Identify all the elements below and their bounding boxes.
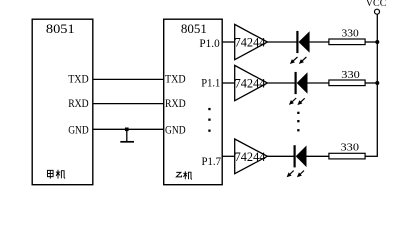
label 甲机 (machine A) char 甲 bbox=[48, 170, 54, 178]
wire RXD (U1 to U2) bbox=[93, 103, 164, 105]
wire buffer U5 to LED D3 bbox=[267, 155, 294, 157]
svg-text:P1.0: P1.0 bbox=[199, 38, 220, 50]
svg-text:RXD: RXD bbox=[165, 98, 186, 110]
VCC terminal circle bbox=[375, 9, 380, 14]
wire P1.7 to buffer U5 bbox=[222, 155, 235, 157]
VCC rail (vertical) bbox=[376, 14, 378, 157]
ground symbol bbox=[120, 129, 134, 142]
junction dot rail row1 bbox=[375, 40, 379, 44]
LED D3 emission arrows bbox=[287, 171, 304, 178]
LED D2 emission arrows bbox=[289, 98, 305, 105]
LED D2 cathode bar bbox=[295, 72, 297, 94]
buffer U3 74244 (row 1) bbox=[235, 24, 268, 59]
svg-text:GND: GND bbox=[68, 124, 89, 136]
ellipsis dots P1.2..P1.6 inside U2 bbox=[208, 108, 210, 132]
svg-text:74244: 74244 bbox=[235, 150, 266, 164]
label 乙机 (machine B) char 乙 bbox=[176, 172, 181, 177]
LED D1 emission arrows bbox=[290, 57, 307, 64]
wire GND (U1 to U2) bbox=[93, 128, 164, 130]
wire resistor R2 to VCC rail bbox=[365, 82, 377, 84]
wire buffer U3 to LED D1 bbox=[267, 41, 297, 43]
wire TXD (U1 to U2) bbox=[93, 78, 164, 80]
buffer U5 74244 (row 3) bbox=[235, 139, 268, 174]
svg-text:8051: 8051 bbox=[181, 21, 207, 36]
LED D2 triangle bbox=[297, 72, 308, 94]
IC U2 8051 box (machine B 乙机) bbox=[164, 19, 223, 185]
wire buffer U4 to LED D2 bbox=[267, 82, 295, 84]
svg-text:8051: 8051 bbox=[46, 21, 75, 36]
junction on GND wire bbox=[125, 128, 129, 132]
wire resistor R3 to VCC rail bbox=[365, 155, 377, 157]
svg-text:330: 330 bbox=[341, 142, 360, 154]
resistor R3 body bbox=[329, 153, 365, 159]
label 乙机 (machine B) char 机 bbox=[183, 171, 192, 179]
IC U1 8051 box (machine A 甲机) bbox=[32, 19, 93, 185]
svg-text:TXD: TXD bbox=[68, 73, 89, 85]
svg-text:TXD: TXD bbox=[165, 74, 186, 86]
svg-text:P1.7: P1.7 bbox=[202, 156, 222, 168]
LED D1 triangle bbox=[299, 31, 310, 53]
wire P1.1 to buffer U4 bbox=[222, 82, 235, 84]
svg-text:74244: 74244 bbox=[235, 36, 266, 50]
buffer U4 74244 (row 2) bbox=[235, 65, 268, 100]
svg-text:P1.1: P1.1 bbox=[201, 77, 220, 89]
wire LED D3 to resistor R3 bbox=[307, 155, 329, 157]
label 甲机 (machine A) char 机 bbox=[56, 170, 65, 179]
wire LED D1 to resistor R1 bbox=[310, 41, 329, 43]
svg-text:VCC: VCC bbox=[366, 0, 387, 9]
wire P1.0 to buffer U3 bbox=[222, 41, 235, 43]
LED D3 triangle bbox=[296, 146, 307, 168]
ellipsis dots LED column bbox=[297, 112, 299, 132]
svg-text:RXD: RXD bbox=[68, 98, 89, 110]
svg-text:GND: GND bbox=[165, 124, 186, 136]
resistor R2 body bbox=[329, 80, 365, 86]
resistor R1 body bbox=[329, 39, 365, 45]
svg-text:330: 330 bbox=[341, 69, 360, 81]
LED D1 cathode bar bbox=[296, 31, 298, 53]
wire resistor R1 to VCC rail bbox=[365, 41, 377, 43]
svg-text:74244: 74244 bbox=[235, 77, 266, 91]
svg-text:330: 330 bbox=[342, 27, 360, 39]
junction dot rail row2 bbox=[375, 81, 379, 85]
LED D3 cathode bar bbox=[294, 145, 296, 167]
wire LED D2 to resistor R2 bbox=[308, 82, 329, 84]
